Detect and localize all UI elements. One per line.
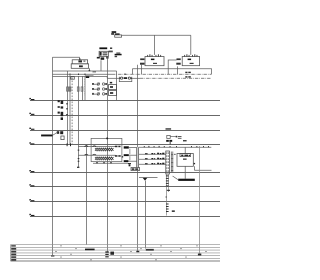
transformer TR2 pins — [184, 54, 197, 56]
bus bar MCC edges — [137, 147, 139, 167]
node IN1 arrow — [176, 136, 178, 138]
title block row labels column — [11, 245, 16, 260]
node junction ticks on line A — [70, 74, 86, 76]
node T2 drop marks — [93, 71, 97, 72]
title block faint row marks — [55, 245, 207, 260]
relay K2 label — [110, 92, 113, 94]
wire KM2 to bus — [129, 154, 137, 156]
transformer TR2 rating label — [190, 63, 194, 64]
node control rail foot — [106, 251, 109, 252]
heater element H1 zigzag band — [95, 148, 113, 151]
starter row ST3 wire — [139, 163, 166, 165]
net label NB1 — [185, 72, 191, 73]
wire T2 secondary drop — [100, 60, 102, 71]
fuse FV1 — [67, 87, 69, 91]
wire T1 secondary drop — [88, 68, 90, 71]
starter row ST2 wire — [139, 158, 166, 160]
control transformer T2 side label — [110, 48, 112, 49]
motor starter MS1 inner header — [180, 154, 191, 157]
breaker row CB3 — [92, 93, 107, 95]
contactor KM2 bold bar — [124, 154, 129, 156]
node v4 branch ticks — [78, 150, 80, 162]
metering loop elements — [121, 77, 131, 79]
wire control rail — [107, 56, 109, 252]
starter panel label small — [183, 140, 187, 141]
overload contacts marks — [115, 146, 123, 158]
spare circuit wire row3 — [93, 162, 128, 164]
panel MDP left edge — [84, 76, 86, 100]
fuse FV5 — [81, 87, 83, 91]
wire panel top edge — [53, 57, 80, 60]
wire control line from panel — [53, 70, 117, 72]
transformer TR1 pins — [147, 54, 161, 56]
starter row ST3 breaker mark — [145, 163, 148, 164]
node channel cross ticks — [171, 154, 173, 171]
starter row ST2 breaker mark — [145, 158, 148, 159]
spare circuit row3 marks — [96, 162, 112, 163]
wire terminal channel continuation b — [167, 174, 169, 192]
title block row line 2 — [11, 246, 221, 248]
transformer T1 upper tier box — [72, 60, 87, 64]
heater element H2 zigzag band lower — [95, 157, 113, 160]
wire distribution line A — [53, 73, 113, 75]
transformer TR2 body — [182, 57, 199, 66]
wire ground branch — [139, 176, 158, 178]
wire drop to transformer TR2 — [190, 35, 192, 55]
node motor circuit foot — [198, 254, 201, 256]
wire branch v4 — [78, 76, 80, 167]
fuse F0 source label — [111, 31, 119, 35]
heater element H1 zigzag band lower — [95, 148, 113, 151]
wire branch v1 — [67, 71, 69, 145]
net label feeder tag text — [109, 51, 113, 53]
heater circuit H2 contact a — [85, 153, 89, 156]
wire terminal channel continuation a — [166, 174, 168, 216]
transformer T1 value label — [79, 65, 83, 67]
node L4 tap label — [29, 142, 34, 144]
heater circuit H1 contact b — [93, 145, 97, 148]
terminal column lower marks — [166, 204, 169, 213]
wire branch v3 neutral dashed — [71, 78, 73, 145]
control transformer T2 bottom labels — [97, 57, 109, 60]
transformer TR2 name label — [188, 59, 192, 61]
wire distribution line B left section — [53, 76, 108, 78]
starter row ST2 contactor cluster — [151, 158, 164, 160]
wire distribution line A dash-dot section — [112, 73, 212, 75]
motor starter MS1 box — [177, 154, 193, 167]
wire label leader line — [53, 132, 59, 136]
node L1 tap label — [29, 98, 34, 100]
node tick on line A at meter — [125, 73, 126, 75]
wire L8 feeder rung — [30, 216, 220, 218]
wire branch v5 — [82, 76, 84, 100]
control transformer T2 body — [99, 51, 108, 56]
disconnect switch S0 box — [115, 35, 122, 37]
title block row line 6 — [11, 257, 221, 259]
title block row line 1 — [11, 244, 221, 246]
terminal column ticks below TB1 — [166, 175, 169, 186]
wire stub TR1 bottom left — [131, 69, 133, 74]
terminal strip TB1 numbers — [166, 153, 169, 172]
wire L7 feeder rung — [30, 201, 220, 203]
overload box OL1 — [91, 138, 122, 161]
net label NB2 — [185, 76, 191, 77]
ground GND symbol — [143, 178, 148, 181]
node L7 tap label — [29, 199, 34, 201]
transformer TR1 name label — [151, 59, 155, 61]
pin MS1 bottom pin mark — [194, 163, 195, 164]
net label feeder tag bar — [115, 54, 122, 56]
title block row line 3 — [11, 249, 221, 251]
wire L4 feeder rung — [30, 144, 220, 146]
wire branch v2 — [69, 74, 71, 144]
wire L2 feeder rung — [30, 115, 220, 117]
relay K2 box — [109, 91, 117, 96]
relay K1 box — [109, 85, 117, 90]
net label on rung L3 — [166, 128, 172, 130]
motor M1 label bar — [178, 179, 195, 181]
title block note text 1 — [85, 249, 95, 251]
node OL1 junction dot — [106, 137, 108, 139]
title block note text 3 — [110, 252, 114, 255]
title block row line 5 — [11, 255, 221, 257]
terminal strip TB1 box — [166, 151, 170, 174]
wire main rail MCC feed upper — [137, 65, 139, 148]
node rail foot — [136, 251, 139, 252]
contactor KM3 bold bar — [124, 160, 129, 162]
node L6 tap label — [29, 184, 34, 186]
node terminal bar mark — [167, 190, 170, 191]
wire contactor interlink b — [129, 156, 131, 160]
fuse FU1 on TR1 primary side — [140, 58, 144, 64]
wire contactor interlink a — [129, 149, 131, 155]
wire dashed meter tap — [84, 79, 86, 96]
wire MS1 output run right — [194, 169, 211, 171]
wire IN1 tag line — [170, 136, 176, 138]
wire feeder drop to motor starter — [184, 147, 186, 153]
node L2 tap label — [29, 113, 34, 115]
wire control feed vertical — [116, 71, 118, 100]
net label feeder tag small text — [115, 53, 121, 58]
breaker row CB1 — [92, 83, 107, 85]
fuse FU2 on TR2 primary side — [176, 58, 180, 64]
title block table frame — [10, 245, 12, 261]
node junction dot — [89, 70, 91, 72]
node feeder ticks — [144, 146, 209, 148]
transformer T1 lower tier box — [71, 64, 88, 69]
starter row ST1 breaker mark — [145, 153, 148, 154]
title block note text 2 — [105, 251, 108, 257]
wire TR1 left connection — [141, 65, 143, 75]
wire TR2 feed from left — [168, 60, 176, 74]
relay K1 label — [110, 86, 113, 88]
transformer TR1 rating label — [153, 63, 157, 64]
node ticks on rung L4 — [67, 143, 71, 146]
contactor KM1 bold bar — [124, 146, 129, 148]
starter row ST1 wire — [139, 153, 166, 155]
relay group label — [110, 82, 112, 84]
wire KM1 to bus — [129, 147, 137, 149]
MCC label box — [131, 168, 140, 171]
node ground rail foot label — [146, 249, 154, 251]
wire KM3 to bus — [128, 160, 136, 162]
wire MS1 bottom drop — [184, 166, 186, 178]
wire incoming supply line — [122, 34, 191, 36]
wire L6 feeder rung — [30, 186, 220, 188]
control transformer T2 label — [99, 47, 107, 49]
wire main rail MCC feed lower — [137, 171, 139, 252]
wire drop to transformer TR1 — [153, 35, 155, 55]
wire line B segment through metering loop — [132, 77, 140, 79]
node v4 end terminal — [77, 167, 79, 168]
title block row line 4 — [11, 252, 221, 254]
heater circuit H1 wire — [78, 146, 115, 148]
panel MDP name label — [86, 76, 89, 78]
fuse FV4 — [77, 87, 79, 91]
node L5 tap label — [29, 170, 34, 172]
disconnect box S1 — [71, 77, 75, 80]
wire L5 feeder rung — [30, 172, 220, 174]
heater element H2 zigzag band — [95, 157, 113, 160]
bus bar MCC vertical fill — [137, 147, 139, 167]
wire L1 feeder rung — [30, 100, 220, 102]
heater circuit H2 contact b — [93, 153, 97, 156]
wire IN1 drop tick — [169, 142, 172, 145]
heater circuit H1 contact a — [85, 145, 89, 148]
node L8 tap label — [29, 214, 34, 216]
wire MCC rail branch — [86, 145, 88, 245]
wire L3 feeder rung — [30, 130, 220, 132]
wire TR2 left connection — [176, 66, 178, 74]
fuse FV2 — [69, 87, 71, 91]
wire vertical rail from panel corner — [52, 57, 54, 255]
wire motor circuit down — [199, 146, 201, 255]
motor starter MS1 name text — [174, 154, 186, 160]
wire field wiring channel — [171, 152, 173, 173]
transformer T1 label — [78, 58, 85, 62]
terminal strip TB1 header label — [166, 140, 172, 142]
breaker row CB2 — [92, 88, 107, 90]
spare labels lower — [172, 210, 175, 212]
wire MS1 right bottom drop — [193, 166, 195, 170]
MCC label text — [132, 168, 138, 170]
wire ground rail down — [145, 181, 147, 249]
title block bottom line — [11, 260, 221, 262]
node rail foot terminal — [51, 255, 54, 257]
node ticks on branch v1 — [66, 103, 68, 115]
wire label leader to motor tag — [173, 176, 178, 180]
net label IN1 tag text — [178, 136, 182, 139]
meter M1 box — [61, 136, 64, 140]
wire distribution line B dash-dot section — [140, 77, 212, 79]
heater circuit H2 wire — [78, 154, 115, 156]
transformer TR1 body — [145, 57, 164, 66]
wire secondary bus under TR1 TR2 — [132, 69, 211, 74]
motor starter MS1 header text — [181, 155, 190, 157]
node X terminal mark — [128, 163, 131, 166]
instrument IN1 body — [167, 135, 170, 138]
panel name label bar — [41, 135, 52, 137]
node channel tick — [166, 197, 167, 198]
wire branch labels column — [57, 100, 63, 134]
metering loop box KWH — [119, 77, 132, 82]
node L3 tap label — [29, 128, 34, 130]
wire distribution line B right section — [107, 77, 119, 79]
panel MDP top edge — [85, 75, 94, 77]
control transformer T2 winding marks — [100, 52, 108, 56]
starter row ST1 contactor cluster — [151, 153, 164, 155]
wire MCC feeder — [139, 146, 212, 148]
starter row ST3 contactor cluster — [151, 163, 164, 165]
